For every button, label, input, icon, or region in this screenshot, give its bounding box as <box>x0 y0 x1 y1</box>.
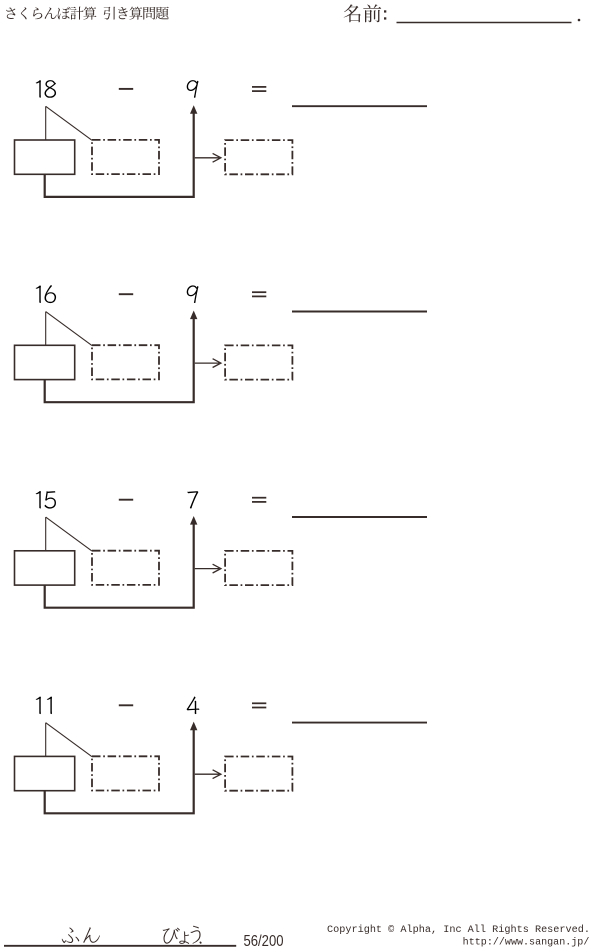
header title text <box>6 7 169 20</box>
problem 3: solid answer box <box>15 551 75 585</box>
problem 2: wire from solid box up to subtrahend <box>45 318 194 402</box>
problem 3: arrow to result box <box>195 564 221 573</box>
problem 4: minus sign <box>119 704 133 706</box>
svg-text:http://www.sangan.jp/: http://www.sangan.jp/ <box>463 937 590 949</box>
problem 2: minus sign <box>119 293 133 295</box>
bottom time label (fun/byou) <box>62 926 202 944</box>
problem 1: dashed result box <box>225 140 292 174</box>
problem 4: wire arrowhead (up) <box>190 722 197 731</box>
problem 2: arrow to result box <box>195 359 221 368</box>
problem 1: minuend "18" <box>36 80 56 98</box>
problem 1: solid answer box <box>15 140 75 174</box>
bottom writing line <box>4 945 236 947</box>
problem 3: wire arrowhead (up) <box>190 516 197 525</box>
problem 2: answer blank line <box>292 311 427 313</box>
problem 4: solid answer box <box>15 756 75 790</box>
problem 4: dashed result box <box>225 757 292 791</box>
period after name line <box>578 19 581 22</box>
problem 3: subtrahend "7" <box>187 491 198 508</box>
problem 1: equals sign <box>252 87 266 91</box>
problem 2: minuend "16" <box>36 285 56 303</box>
problem 2: solid answer box <box>15 345 75 379</box>
problem 4: equals sign <box>252 703 266 707</box>
problem 4: arrow to result box <box>195 770 221 779</box>
problem 2: cherry split line (diagonal) <box>46 312 92 346</box>
problem 4: subtrahend "4" <box>187 697 200 715</box>
problem 3: answer blank line <box>292 516 427 518</box>
problem 4: minuend "11" <box>36 697 52 715</box>
problem 1: minus sign <box>119 88 133 90</box>
problem 4: cherry split line (vertical) <box>45 723 47 757</box>
problem 1: wire arrowhead (up) <box>190 105 197 114</box>
problem 1: cherry split line (diagonal) <box>46 106 92 140</box>
problem 1: dashed box (left part) <box>92 140 159 174</box>
problem 4: cherry split line (diagonal) <box>46 723 92 757</box>
problem 3: wire from solid box up to subtrahend <box>45 523 194 607</box>
name underline <box>397 22 572 24</box>
problem 4: wire from solid box up to subtrahend <box>45 729 194 813</box>
problem 2: cherry split line (vertical) <box>45 312 47 346</box>
problem 3: minus sign <box>119 499 133 501</box>
svg-text:Copyright © Alpha, Inc All Ri: Copyright © Alpha, Inc All Rights Reserv… <box>327 924 590 936</box>
problem 3: equals sign <box>252 498 266 502</box>
problem 2: equals sign <box>252 292 266 296</box>
problem 2: subtrahend "9" <box>187 285 199 303</box>
problem 4: dashed box (left part) <box>92 756 159 790</box>
problem 1: wire from solid box up to subtrahend <box>45 113 194 197</box>
problem 2: wire arrowhead (up) <box>190 311 197 320</box>
problem 3: cherry split line (diagonal) <box>46 517 92 551</box>
problem 4: answer blank line <box>292 722 427 724</box>
problem 1: subtrahend "9" <box>187 80 199 98</box>
name label <box>344 4 382 22</box>
problem 2: dashed result box <box>225 345 292 379</box>
problem 3: minuend "15" <box>36 491 56 509</box>
problem 1: arrow to result box <box>195 153 221 162</box>
problem 3: dashed result box <box>225 551 292 585</box>
problem 2: dashed box (left part) <box>92 345 159 379</box>
problem 1: cherry split line (vertical) <box>45 106 47 140</box>
problem 3: dashed box (left part) <box>92 551 159 585</box>
problem 3: cherry split line (vertical) <box>45 517 47 551</box>
name label colon <box>384 10 386 19</box>
svg-text:56/200: 56/200 <box>244 933 284 950</box>
problem 1: answer blank line <box>292 105 427 107</box>
